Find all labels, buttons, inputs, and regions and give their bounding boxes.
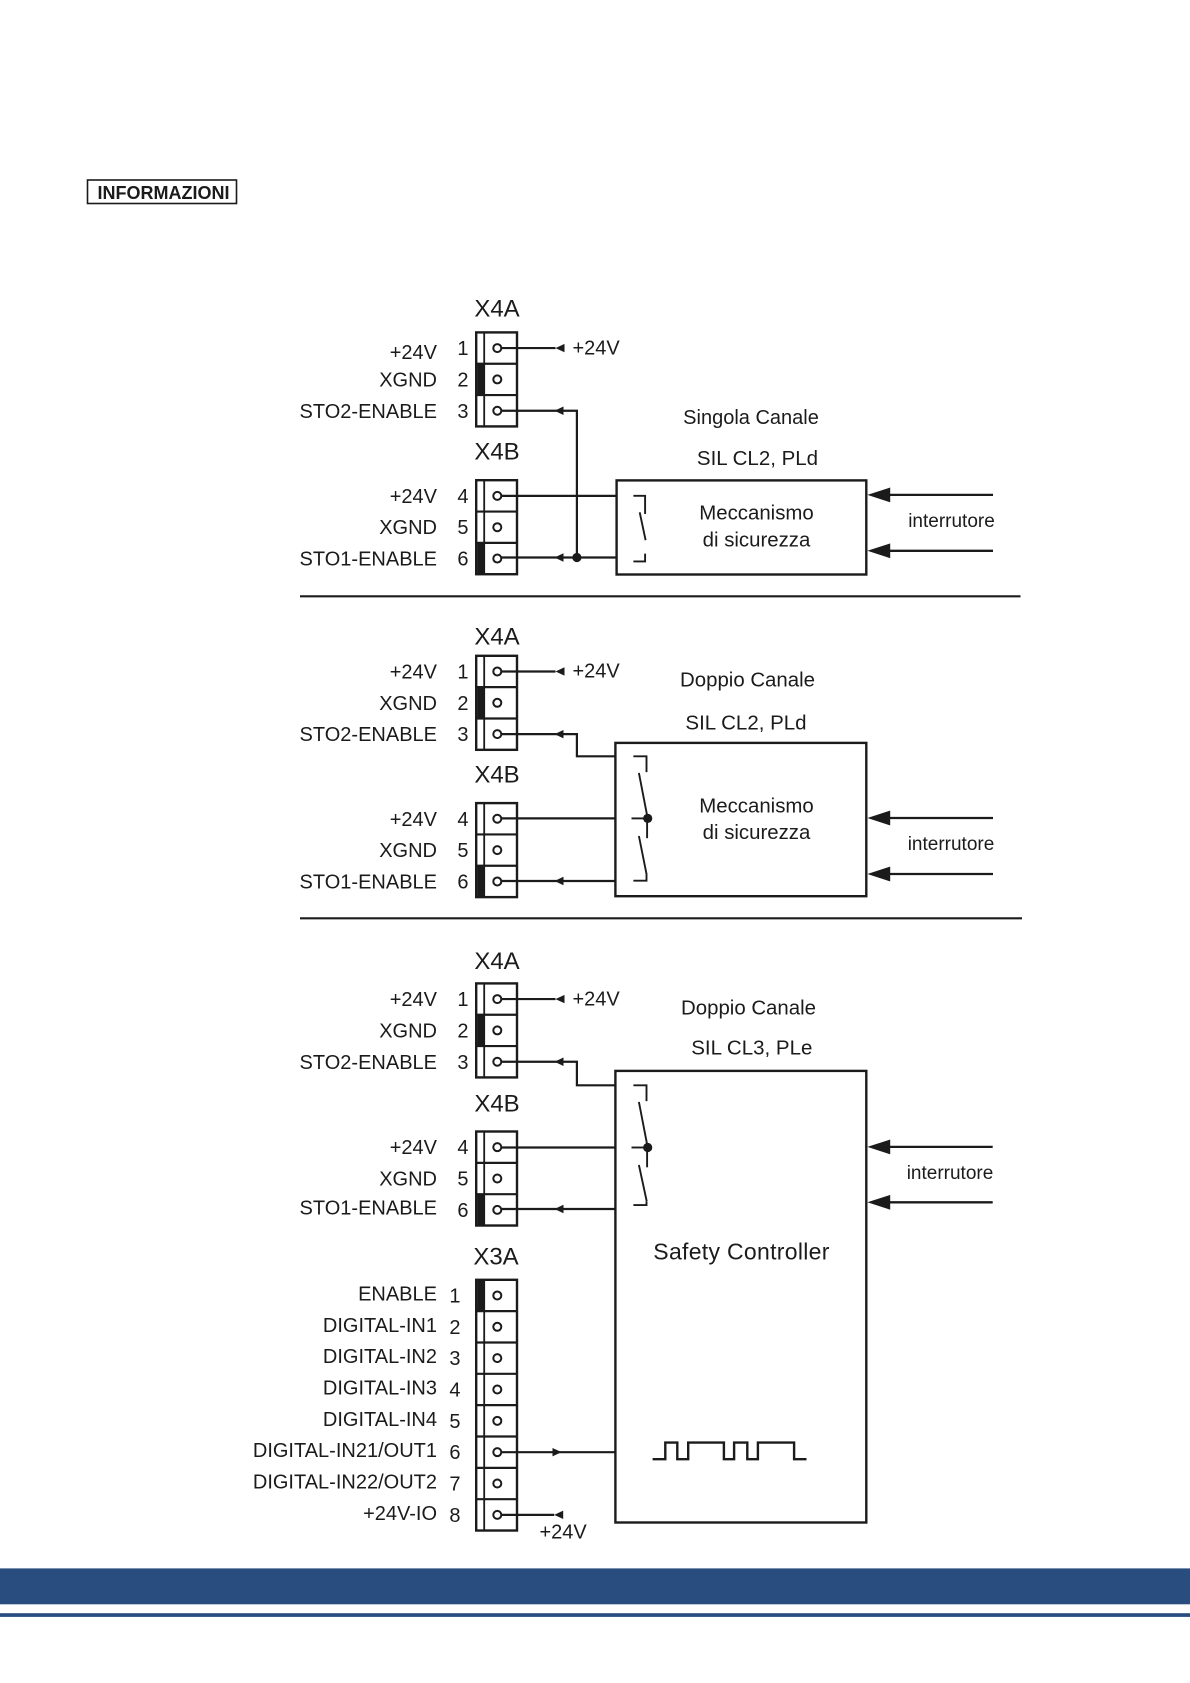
svg-text:+24V: +24V	[573, 988, 621, 1010]
safety mechanism box U2 (diagram 2)	[615, 743, 866, 896]
footer thin rule	[0, 1613, 1190, 1617]
arrowhead on STO1-ENABLE wire (diagram 1)	[555, 553, 564, 561]
svg-text:1: 1	[457, 989, 468, 1011]
connector X3A (diagram 3) cell divider 7	[476, 1498, 517, 1500]
arrowhead on +24V wire (diagram 2)	[556, 667, 565, 675]
arrowhead on STO2-ENABLE wire (diagram 2)	[555, 730, 564, 738]
wire pin6 STO1-ENABLE into box (diagram 2)	[501, 880, 616, 882]
svg-text:INFORMAZIONI: INFORMAZIONI	[98, 183, 230, 203]
svg-text:interrutore: interrutore	[907, 1163, 994, 1184]
svg-text:4: 4	[457, 1137, 468, 1159]
pin 4 terminal circle (X3A diagram 3)	[493, 1385, 501, 1393]
wire pin1 X4A to +24V supply (diagram 2)	[501, 670, 556, 672]
connector X4B (diagram 3) cell divider 1	[476, 1162, 517, 1164]
connector X4A (diagram 1) body	[476, 332, 517, 426]
safety controller box U3 (diagram 3)	[615, 1071, 866, 1523]
safety mechanism box U1 (diagram 1)	[617, 480, 867, 574]
svg-text:DIGITAL-IN2: DIGITAL-IN2	[323, 1346, 437, 1368]
connector X3A (diagram 3) cell divider 1	[476, 1310, 517, 1312]
svg-text:1: 1	[457, 338, 468, 360]
separator rule below diagram 1	[300, 595, 1021, 597]
connector X3A (diagram 3) black coding mark pin 1	[477, 1280, 484, 1310]
switch contact S2 lower inside controller (diagram 3)	[646, 1148, 648, 1168]
svg-text:2: 2	[457, 1020, 468, 1042]
svg-text:7: 7	[449, 1474, 460, 1496]
pin 1 terminal circle (X4A diagram 1)	[493, 344, 501, 352]
pin 1 terminal circle (X4A diagram 2)	[493, 667, 501, 675]
connector X4A (diagram 1) coding strip	[483, 332, 485, 426]
pin 4 terminal circle (X4B diagram 3)	[493, 1143, 501, 1151]
svg-text:STO1-ENABLE: STO1-ENABLE	[300, 1197, 437, 1219]
connector X4B (diagram 2) cell divider 1	[476, 833, 517, 835]
wire pin1 X4A to +24V supply (diagram 1)	[501, 347, 556, 349]
connector X4A (diagram 3) body	[476, 983, 517, 1077]
svg-text:6: 6	[457, 549, 468, 571]
pin 4 terminal circle (X4B diagram 1)	[493, 492, 501, 500]
pin 6 terminal circle (X4B diagram 1)	[493, 555, 501, 563]
connector X3A (diagram 3) cell divider 3	[476, 1373, 517, 1375]
connector X4B (diagram 2) coding strip	[483, 803, 485, 897]
svg-text:2: 2	[457, 693, 468, 715]
digital pulse waveform inside controller (diagram 3)	[653, 1443, 807, 1460]
pin 3 terminal circle (X3A diagram 3)	[493, 1354, 501, 1362]
svg-text:+24V: +24V	[390, 661, 438, 683]
svg-text:X4A: X4A	[474, 624, 519, 651]
svg-text:Doppio Canale: Doppio Canale	[680, 670, 815, 692]
INFORMAZIONI note box	[88, 180, 237, 204]
arrowhead pointing right on pin6 wire (diagram 3)	[553, 1448, 562, 1456]
switch contact S1 inside box (diagram 1)	[633, 496, 645, 514]
svg-text:di sicurezza: di sicurezza	[703, 822, 811, 844]
interrutore input wire lower (diagram 2)	[890, 873, 994, 875]
wire pin6 STO1-ENABLE into controller (diagram 3)	[501, 1208, 616, 1210]
svg-text:3: 3	[457, 401, 468, 423]
arrowhead on +24V wire (diagram 3)	[556, 995, 565, 1003]
junction node with stub (diagram 3)	[632, 1147, 648, 1149]
svg-text:DIGITAL-IN21/OUT1: DIGITAL-IN21/OUT1	[253, 1440, 437, 1462]
separator rule below diagram 2	[300, 917, 1022, 919]
connector X3A (diagram 3) cell divider 6	[476, 1467, 517, 1469]
wire pin4 +24V into safety unit (diagram 1)	[501, 495, 617, 497]
switch contact S2 lower inside box (diagram 2)	[646, 818, 648, 838]
wire pin1 X4A to +24V supply (diagram 3)	[501, 998, 556, 1000]
wire pin3 STO2-ENABLE into controller (diagram 3)	[501, 1062, 616, 1086]
connector X4A (diagram 2) cell divider 2	[476, 717, 517, 719]
wire pin4 +24V to junction (diagram 2)	[501, 817, 616, 819]
svg-text:5: 5	[457, 517, 468, 539]
connector X4B (diagram 1) cell divider 1	[476, 510, 517, 512]
interrutore input wire upper (diagram 2)	[890, 817, 994, 819]
svg-text:4: 4	[457, 809, 468, 831]
footer navy bar	[0, 1568, 1190, 1604]
svg-text:5: 5	[449, 1411, 460, 1433]
connector X4B (diagram 1) coding strip	[483, 480, 485, 574]
arrowhead on STO1-ENABLE wire (diagram 2)	[555, 877, 564, 885]
wire pin6 STO1-ENABLE to safety unit (diagram 1)	[501, 556, 617, 558]
connector X4B (diagram 2) cell divider 2	[476, 865, 517, 867]
svg-text:X4A: X4A	[474, 948, 519, 975]
wire X3A pin6 DIGITAL-IN21/OUT1 to controller (diagram 3)	[501, 1451, 616, 1453]
svg-text:+24V: +24V	[390, 809, 438, 831]
svg-text:+24V: +24V	[390, 1137, 438, 1159]
svg-text:ENABLE: ENABLE	[358, 1283, 437, 1305]
connector X4A (diagram 2) cell divider 1	[476, 686, 517, 688]
interrutore input wire upper (diagram 3)	[890, 1146, 993, 1148]
connector X4B (diagram 2) body	[476, 803, 517, 897]
pin 5 terminal circle (X4B diagram 3)	[493, 1175, 501, 1183]
svg-text:X4B: X4B	[474, 1091, 519, 1118]
pin 2 terminal circle (X4A diagram 2)	[493, 699, 501, 707]
svg-text:SIL CL2, PLd: SIL CL2, PLd	[697, 447, 818, 470]
svg-text:4: 4	[449, 1379, 460, 1401]
svg-text:Doppio Canale: Doppio Canale	[681, 998, 816, 1020]
connector X3A (diagram 3) cell divider 5	[476, 1435, 517, 1437]
junction node STO1/STO2 (diagram 1)	[572, 553, 581, 562]
wire X3A pin8 +24V-IO supply (diagram 3)	[501, 1514, 554, 1516]
interrutore arrowhead lower (diagram 2)	[867, 867, 890, 882]
svg-text:DIGITAL-IN3: DIGITAL-IN3	[323, 1377, 437, 1399]
svg-text:+24V: +24V	[573, 661, 621, 683]
interrutore arrowhead lower (diagram 3)	[867, 1195, 890, 1210]
interrutore arrowhead lower (diagram 1)	[867, 543, 890, 558]
svg-text:XGND: XGND	[379, 840, 437, 862]
connector X3A (diagram 3) body	[476, 1280, 517, 1531]
connector X4B (diagram 2) black coding mark pin 6	[477, 866, 484, 896]
svg-text:+24V: +24V	[573, 337, 621, 359]
pin 6 terminal circle (X4B diagram 2)	[493, 877, 501, 885]
svg-text:X4A: X4A	[474, 296, 519, 323]
svg-text:di sicurezza: di sicurezza	[703, 530, 811, 552]
svg-text:6: 6	[457, 1200, 468, 1222]
svg-text:6: 6	[457, 871, 468, 893]
arrowhead on STO1-ENABLE wire (diagram 3)	[555, 1205, 564, 1213]
arrowhead on +24V wire (diagram 1)	[556, 344, 565, 352]
svg-text:DIGITAL-IN1: DIGITAL-IN1	[323, 1315, 437, 1337]
junction node with stub (diagram 2)	[632, 817, 648, 819]
connector X4A (diagram 1) cell divider 1	[476, 363, 517, 365]
pin 4 terminal circle (X4B diagram 2)	[493, 815, 501, 823]
pin 5 terminal circle (X3A diagram 3)	[493, 1417, 501, 1425]
svg-text:XGND: XGND	[379, 1020, 437, 1042]
pin 1 terminal circle (X4A diagram 3)	[493, 995, 501, 1003]
connector X4A (diagram 2) black coding mark pin 2	[477, 688, 484, 718]
svg-text:2: 2	[457, 369, 468, 391]
pin 5 terminal circle (X4B diagram 1)	[493, 523, 501, 531]
connector X4B (diagram 1) cell divider 2	[476, 542, 517, 544]
svg-text:+24V: +24V	[540, 1522, 588, 1544]
interrutore input wire lower (diagram 3)	[890, 1201, 993, 1203]
pin 3 terminal circle (X4A diagram 2)	[493, 730, 501, 738]
svg-text:4: 4	[457, 486, 468, 508]
connector X4B (diagram 1) black coding mark pin 6	[477, 543, 484, 573]
connector X4B (diagram 3) body	[476, 1132, 517, 1226]
svg-text:XGND: XGND	[379, 1169, 437, 1191]
connector X4A (diagram 2) body	[476, 656, 517, 750]
svg-text:+24V: +24V	[390, 486, 438, 508]
svg-text:DIGITAL-IN4: DIGITAL-IN4	[323, 1409, 437, 1431]
svg-text:STO2-ENABLE: STO2-ENABLE	[300, 1052, 437, 1074]
svg-text:Safety Controller: Safety Controller	[653, 1239, 829, 1265]
connector X4A (diagram 3) black coding mark pin 2	[477, 1015, 484, 1045]
svg-text:XGND: XGND	[379, 517, 437, 539]
svg-text:3: 3	[457, 724, 468, 746]
pin 1 terminal circle (X3A diagram 3)	[493, 1291, 501, 1299]
connector X4A (diagram 2) coding strip	[483, 656, 485, 750]
connector X4B (diagram 3) black coding mark pin 6	[477, 1195, 484, 1225]
connector X4A (diagram 1) black coding mark pin 2	[477, 364, 484, 394]
connector X4B (diagram 3) coding strip	[483, 1132, 485, 1226]
connector X4A (diagram 1) cell divider 2	[476, 394, 517, 396]
svg-text:XGND: XGND	[379, 369, 437, 391]
svg-text:interrutore: interrutore	[908, 834, 995, 855]
svg-text:Meccanismo: Meccanismo	[699, 796, 813, 818]
pin 5 terminal circle (X4B diagram 2)	[493, 846, 501, 854]
svg-text:SIL CL2, PLd: SIL CL2, PLd	[685, 712, 806, 735]
svg-text:X4B: X4B	[474, 439, 519, 466]
svg-text:1: 1	[457, 661, 468, 683]
svg-text:X3A: X3A	[473, 1244, 518, 1271]
interrutore arrowhead upper (diagram 1)	[867, 488, 890, 503]
pin 2 terminal circle (X4A diagram 3)	[493, 1026, 501, 1034]
svg-text:+24V-IO: +24V-IO	[363, 1503, 437, 1525]
svg-text:5: 5	[457, 840, 468, 862]
switch contact S1 upper inside controller (diagram 3)	[633, 1085, 646, 1101]
svg-text:6: 6	[449, 1442, 460, 1464]
wire pin3 STO2-ENABLE into box (diagram 2)	[501, 734, 616, 756]
connector X4B (diagram 1) body	[476, 480, 517, 574]
connector X3A (diagram 3) cell divider 2	[476, 1341, 517, 1343]
pin 2 terminal circle (X3A diagram 3)	[493, 1323, 501, 1331]
svg-text:X4B: X4B	[474, 762, 519, 789]
svg-text:1: 1	[449, 1285, 460, 1307]
svg-text:+24V: +24V	[390, 989, 438, 1011]
interrutore arrowhead upper (diagram 3)	[867, 1140, 890, 1155]
pin 2 terminal circle (X4A diagram 1)	[493, 375, 501, 383]
svg-text:STO1-ENABLE: STO1-ENABLE	[300, 871, 437, 893]
pin 7 terminal circle (X3A diagram 3)	[493, 1480, 501, 1488]
arrowhead on +24V-IO wire (diagram 3)	[554, 1511, 563, 1519]
interrutore arrowhead upper (diagram 2)	[867, 811, 890, 826]
svg-text:interrutore: interrutore	[908, 511, 995, 532]
svg-text:3: 3	[449, 1348, 460, 1370]
connector X4A (diagram 3) coding strip	[483, 983, 485, 1077]
arrowhead on STO2-ENABLE wire (diagram 3)	[555, 1058, 564, 1066]
connector X4B (diagram 3) cell divider 2	[476, 1193, 517, 1195]
pin 8 terminal circle (X3A diagram 3)	[493, 1511, 501, 1519]
arrowhead on STO2-ENABLE wire (diagram 1)	[555, 407, 564, 415]
svg-text:STO2-ENABLE: STO2-ENABLE	[300, 401, 437, 423]
svg-text:STO1-ENABLE: STO1-ENABLE	[300, 549, 437, 571]
connector X3A (diagram 3) cell divider 4	[476, 1404, 517, 1406]
svg-text:DIGITAL-IN22/OUT2: DIGITAL-IN22/OUT2	[253, 1472, 437, 1494]
pin 6 terminal circle (X3A diagram 3)	[493, 1448, 501, 1456]
svg-text:8: 8	[449, 1505, 460, 1527]
wire pin4 +24V to junction (diagram 3)	[501, 1146, 616, 1148]
svg-text:Singola Canale: Singola Canale	[683, 407, 819, 429]
svg-text:5: 5	[457, 1169, 468, 1191]
switch contact S1 upper inside box (diagram 2)	[633, 756, 646, 772]
wire pin3 STO2-ENABLE to safety unit (diagram 1)	[501, 411, 577, 558]
svg-text:Meccanismo: Meccanismo	[699, 503, 813, 525]
svg-text:STO2-ENABLE: STO2-ENABLE	[300, 724, 437, 746]
pin 3 terminal circle (X4A diagram 3)	[493, 1058, 501, 1066]
svg-text:2: 2	[449, 1317, 460, 1339]
interrutore input wire upper (diagram 1)	[890, 494, 994, 496]
svg-text:SIL CL3, PLe: SIL CL3, PLe	[691, 1037, 812, 1060]
connector X4A (diagram 3) cell divider 2	[476, 1045, 517, 1047]
svg-text:XGND: XGND	[379, 693, 437, 715]
svg-text:+24V: +24V	[390, 342, 438, 364]
pin 6 terminal circle (X4B diagram 3)	[493, 1206, 501, 1214]
svg-text:3: 3	[457, 1052, 468, 1074]
pin 3 terminal circle (X4A diagram 1)	[493, 407, 501, 415]
connector X3A (diagram 3) coding strip	[483, 1280, 485, 1531]
interrutore input wire lower (diagram 1)	[890, 550, 994, 552]
connector X4A (diagram 3) cell divider 1	[476, 1014, 517, 1016]
